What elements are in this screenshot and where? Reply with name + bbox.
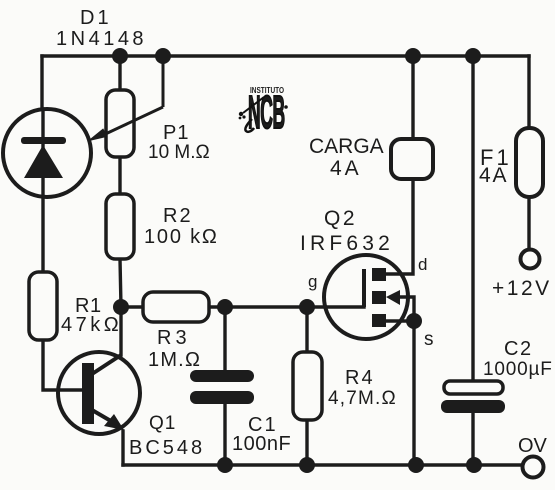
node bottom rail / R4	[299, 457, 315, 473]
load CARGA	[391, 139, 433, 179]
node top rail / wiper	[155, 48, 171, 64]
wire drain vertical from top rail to CARGA	[411, 56, 414, 139]
wire Q2 body to source node	[398, 297, 414, 321]
node R3/C1	[217, 299, 233, 315]
svg-text:BC548: BC548	[129, 437, 205, 459]
wire C2 branch vertical top	[471, 56, 474, 381]
svg-text:R2: R2	[163, 205, 193, 227]
resistor R2	[106, 194, 134, 259]
capacitor C2	[441, 381, 505, 413]
wire C1 top lead	[223, 307, 226, 371]
svg-text:g: g	[308, 272, 317, 291]
svg-text:IRF632: IRF632	[300, 232, 394, 255]
wire bottom rail	[123, 463, 522, 466]
svg-text:D1: D1	[80, 7, 112, 29]
resistor R3	[143, 292, 209, 322]
svg-text:Q2: Q2	[324, 207, 357, 230]
svg-text:d: d	[418, 255, 427, 274]
wire CARGA bottom to Q2 drain	[387, 179, 413, 274]
wire C2 bottom lead	[471, 413, 474, 465]
svg-text:47kΩ: 47kΩ	[61, 314, 122, 336]
wire Q1 emitter down to bottom rail	[121, 431, 124, 465]
potentiometer P1	[87, 56, 163, 157]
svg-text:NCB: NCB	[248, 88, 285, 138]
mosfet Q2	[324, 255, 408, 339]
svg-text:P1: P1	[163, 122, 189, 144]
node gate/R4	[299, 299, 315, 315]
svg-text:R4: R4	[345, 367, 375, 389]
svg-text:+12V: +12V	[492, 277, 552, 300]
svg-text:1N4148: 1N4148	[56, 28, 147, 50]
node top rail / CARGA	[405, 48, 421, 64]
svg-text:1000µF: 1000µF	[483, 359, 553, 380]
svg-text:4A: 4A	[330, 157, 362, 180]
wire P1 top lead	[118, 56, 121, 90]
terminal 0V	[523, 457, 544, 478]
svg-text:4A: 4A	[479, 164, 508, 187]
transistor Q1	[58, 352, 140, 434]
wire R3 right to gate node	[209, 305, 364, 308]
svg-text:4,7M.Ω: 4,7M.Ω	[328, 388, 397, 409]
svg-text:100 kΩ: 100 kΩ	[144, 226, 219, 248]
resistor R1	[29, 272, 57, 340]
wire F1 bottom to +12V terminal	[527, 197, 530, 249]
wire R2 bottom to node B	[120, 259, 121, 307]
wire top right corner to F1	[527, 56, 530, 128]
node top rail / C2	[465, 48, 481, 64]
wire node B to Q1 collector	[119, 307, 122, 355]
svg-text:Q1: Q1	[149, 413, 176, 434]
diode D1	[3, 109, 91, 197]
wire R1 bottom to Q1 base	[43, 340, 81, 390]
svg-text:C2: C2	[504, 338, 533, 360]
svg-text:100nF: 100nF	[232, 433, 291, 455]
capacitor C1	[190, 370, 254, 404]
svg-text:1M.Ω: 1M.Ω	[148, 349, 201, 371]
svg-text:OV: OV	[518, 435, 548, 457]
wire C1 bottom lead	[223, 403, 226, 465]
terminal +12V	[521, 250, 540, 269]
node bottom rail / C1	[217, 457, 233, 473]
node source s	[406, 313, 422, 329]
fuse F1	[516, 128, 543, 197]
wire node B to R3 left	[121, 305, 143, 308]
wire Q2 source to source node	[387, 319, 414, 322]
svg-text:CARGA: CARGA	[309, 135, 384, 158]
wire top rail	[42, 54, 529, 57]
wire through D1 down to R1	[41, 109, 44, 272]
node top rail / P1	[112, 48, 128, 64]
node bottom rail / C2	[466, 457, 482, 473]
resistor R4	[293, 352, 322, 420]
wire source node down to bottom rail	[412, 321, 415, 465]
svg-text:s: s	[424, 329, 434, 350]
logo NCB	[239, 86, 288, 139]
wire R4 top lead	[305, 307, 308, 352]
node bottom rail / source	[408, 457, 424, 473]
wire left drop from rail to D1	[40, 56, 43, 109]
node B R2/R3/collector	[113, 299, 129, 315]
wire R4 bottom lead	[305, 420, 308, 465]
svg-text:10 M.Ω: 10 M.Ω	[148, 142, 210, 163]
svg-text:R3: R3	[157, 327, 191, 349]
wire P1 bottom to R2 top	[118, 157, 121, 194]
